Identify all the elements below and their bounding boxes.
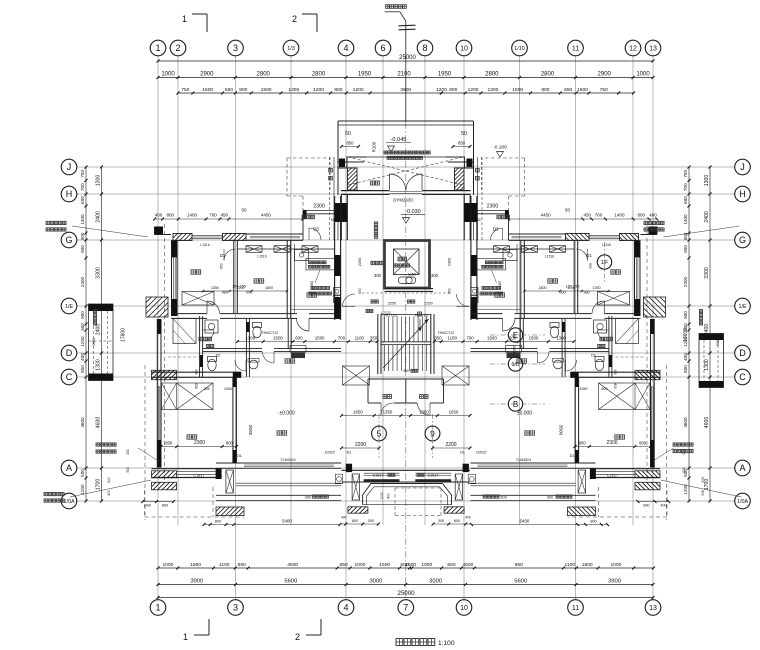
svg-text:850: 850 bbox=[458, 141, 466, 146]
svg-text:D1: D1 bbox=[347, 451, 352, 455]
svg-text:2200: 2200 bbox=[445, 442, 456, 448]
svg-text:400: 400 bbox=[195, 369, 199, 375]
svg-text:2200: 2200 bbox=[355, 442, 366, 448]
svg-text:1400: 1400 bbox=[614, 213, 625, 218]
svg-text:E: E bbox=[513, 331, 518, 340]
svg-text:1350: 1350 bbox=[419, 409, 429, 414]
svg-text:50: 50 bbox=[461, 131, 467, 137]
svg-text:1950: 1950 bbox=[358, 71, 372, 77]
svg-text:1200: 1200 bbox=[468, 87, 479, 93]
svg-text:3900: 3900 bbox=[190, 578, 203, 584]
svg-text:4600: 4600 bbox=[704, 417, 710, 429]
svg-text:350: 350 bbox=[434, 335, 442, 340]
svg-text:2400: 2400 bbox=[683, 276, 688, 287]
svg-text:4450: 4450 bbox=[261, 213, 272, 218]
svg-text:400: 400 bbox=[387, 493, 391, 499]
svg-text:3: 3 bbox=[233, 603, 238, 613]
svg-text:7: 7 bbox=[403, 603, 408, 613]
section mark 1 (bottom) bbox=[183, 619, 209, 642]
svg-text:D1: D1 bbox=[220, 253, 226, 258]
svg-text:650: 650 bbox=[340, 562, 348, 568]
top dimension row: bay widths bbox=[157, 71, 655, 79]
svg-text:600: 600 bbox=[683, 196, 688, 204]
svg-text:J: J bbox=[740, 162, 745, 172]
svg-text:D1: D1 bbox=[460, 451, 465, 455]
svg-text:TLM4524: TLM4524 bbox=[280, 458, 295, 462]
svg-text:700: 700 bbox=[595, 213, 603, 218]
svg-text:1400: 1400 bbox=[80, 214, 85, 225]
svg-text:1300: 1300 bbox=[96, 175, 102, 187]
svg-text:11: 11 bbox=[572, 605, 579, 612]
svg-text:700: 700 bbox=[209, 213, 217, 218]
svg-text:D3: D3 bbox=[313, 227, 319, 232]
core 2200 dim ticks bbox=[340, 447, 472, 450]
svg-text:800: 800 bbox=[226, 440, 234, 445]
svg-text:1150: 1150 bbox=[408, 273, 416, 277]
svg-text:2900: 2900 bbox=[200, 71, 214, 77]
svg-text:2300: 2300 bbox=[448, 258, 452, 266]
svg-text:1300: 1300 bbox=[96, 359, 102, 371]
right dimension chain: fine heights bbox=[683, 166, 691, 503]
left unit walls and fixtures bbox=[141, 157, 341, 526]
svg-text:3300: 3300 bbox=[96, 267, 102, 279]
svg-text:1500: 1500 bbox=[512, 87, 523, 93]
svg-text:17600: 17600 bbox=[121, 328, 127, 342]
svg-text:2400: 2400 bbox=[96, 211, 102, 223]
svg-text:400: 400 bbox=[649, 213, 657, 218]
svg-text:560: 560 bbox=[331, 218, 337, 222]
leader lines to notes bbox=[70, 226, 742, 497]
svg-text:1/C: 1/C bbox=[511, 362, 519, 368]
svg-text:200: 200 bbox=[126, 449, 130, 455]
svg-text:D2: D2 bbox=[591, 354, 596, 358]
svg-text:650: 650 bbox=[564, 87, 572, 93]
svg-text:2300: 2300 bbox=[358, 258, 362, 266]
svg-text:4: 4 bbox=[343, 603, 348, 613]
svg-text:J: J bbox=[67, 162, 72, 172]
section mark 2 (bottom) bbox=[295, 619, 321, 642]
top axis bubbles row bbox=[150, 40, 661, 56]
svg-text:5: 5 bbox=[377, 428, 382, 438]
svg-text:4600: 4600 bbox=[96, 417, 102, 429]
right dimension chain: segment heights bbox=[704, 166, 712, 503]
svg-text:2: 2 bbox=[292, 14, 297, 24]
svg-text:1500: 1500 bbox=[315, 335, 325, 340]
svg-text:1050: 1050 bbox=[224, 387, 232, 391]
svg-text:D2D2′: D2D2′ bbox=[325, 451, 336, 455]
svg-text:500: 500 bbox=[682, 467, 686, 473]
svg-text:450: 450 bbox=[221, 213, 229, 218]
svg-text:9: 9 bbox=[430, 428, 435, 438]
svg-text:800: 800 bbox=[541, 87, 549, 93]
svg-text:2300: 2300 bbox=[313, 204, 325, 210]
svg-text:G: G bbox=[65, 235, 72, 245]
svg-text:750: 750 bbox=[181, 87, 189, 93]
left axis bubbles column bbox=[61, 159, 77, 509]
svg-text:1800: 1800 bbox=[190, 562, 201, 568]
svg-text:400: 400 bbox=[613, 369, 617, 375]
svg-text:4500: 4500 bbox=[462, 562, 473, 568]
svg-text:4600: 4600 bbox=[80, 417, 85, 428]
svg-text:1500: 1500 bbox=[261, 87, 272, 93]
svg-text:25000: 25000 bbox=[399, 55, 416, 61]
svg-text:700: 700 bbox=[466, 335, 474, 340]
svg-text:300: 300 bbox=[438, 519, 444, 523]
svg-text:1800: 1800 bbox=[582, 562, 593, 568]
entrance canopy, doors, elevator core and stairs bbox=[330, 121, 482, 458]
svg-text:600: 600 bbox=[107, 477, 111, 483]
svg-text:±0.000: ±0.000 bbox=[517, 411, 532, 417]
svg-text:-0.030: -0.030 bbox=[405, 209, 420, 215]
svg-text:1300: 1300 bbox=[245, 335, 255, 340]
bottom axis bubbles row bbox=[150, 600, 661, 616]
svg-text:1/E: 1/E bbox=[65, 304, 73, 310]
svg-text:1/0A: 1/0A bbox=[737, 499, 748, 505]
svg-text:D2: D2 bbox=[216, 354, 221, 358]
svg-text:850: 850 bbox=[347, 141, 355, 146]
svg-text:2300: 2300 bbox=[487, 204, 499, 210]
svg-text:C1817: C1817 bbox=[193, 473, 204, 477]
svg-text:1100: 1100 bbox=[447, 335, 457, 340]
svg-text:800: 800 bbox=[579, 440, 587, 445]
svg-text:1300: 1300 bbox=[288, 87, 299, 93]
section mark 1 (top) bbox=[182, 14, 207, 32]
svg-text:800: 800 bbox=[204, 387, 210, 391]
svg-text:800: 800 bbox=[683, 365, 688, 373]
svg-text:1500: 1500 bbox=[273, 335, 283, 340]
svg-text:400: 400 bbox=[683, 353, 688, 361]
svg-text:800: 800 bbox=[454, 519, 460, 523]
svg-text:800: 800 bbox=[215, 519, 221, 523]
svg-text:1/E: 1/E bbox=[738, 304, 746, 310]
svg-text:300: 300 bbox=[368, 519, 374, 523]
svg-text:C1517: C1517 bbox=[373, 474, 384, 478]
svg-text:1100: 1100 bbox=[565, 562, 576, 568]
svg-text:400: 400 bbox=[80, 353, 85, 361]
svg-text:800: 800 bbox=[162, 504, 168, 508]
svg-text:1/3: 1/3 bbox=[287, 46, 295, 52]
top dimension row: fine subdivisions bbox=[177, 87, 636, 95]
svg-text:1000: 1000 bbox=[161, 71, 175, 77]
svg-text:1: 1 bbox=[155, 43, 160, 53]
svg-text:800: 800 bbox=[165, 440, 173, 445]
svg-text:700: 700 bbox=[338, 335, 346, 340]
left dimension chain: segment heights bbox=[96, 166, 104, 503]
svg-text:D3: D3 bbox=[493, 227, 499, 232]
bottom dimension row: fine bbox=[157, 562, 656, 570]
svg-text:C: C bbox=[739, 372, 746, 382]
svg-text:1200: 1200 bbox=[436, 87, 447, 93]
svg-text:4450: 4450 bbox=[541, 213, 552, 218]
svg-text:700: 700 bbox=[80, 170, 85, 178]
svg-text:650: 650 bbox=[448, 288, 452, 294]
svg-text:800: 800 bbox=[637, 213, 645, 218]
svg-text:700: 700 bbox=[683, 170, 688, 178]
svg-text:4500: 4500 bbox=[287, 562, 298, 568]
svg-text:1300: 1300 bbox=[704, 175, 710, 187]
svg-text:2300: 2300 bbox=[606, 440, 617, 446]
svg-text:300: 300 bbox=[547, 494, 554, 499]
svg-text:800: 800 bbox=[602, 387, 608, 391]
svg-text:C: C bbox=[66, 372, 73, 382]
svg-text:1000: 1000 bbox=[610, 562, 621, 568]
svg-text:800: 800 bbox=[195, 383, 199, 389]
svg-text:TLM4524: TLM4524 bbox=[516, 458, 531, 462]
svg-text:1800: 1800 bbox=[265, 286, 273, 290]
svg-text:5400: 5400 bbox=[520, 518, 530, 523]
svg-text:2900: 2900 bbox=[598, 71, 612, 77]
svg-text:900: 900 bbox=[80, 245, 85, 253]
svg-text:500: 500 bbox=[80, 469, 85, 477]
svg-text:1050: 1050 bbox=[580, 387, 588, 391]
svg-text:300: 300 bbox=[374, 273, 382, 278]
svg-text:B: B bbox=[513, 400, 518, 409]
svg-text:G: G bbox=[739, 235, 746, 245]
svg-text:800: 800 bbox=[449, 87, 457, 93]
svg-text:3: 3 bbox=[233, 43, 238, 53]
svg-text:800: 800 bbox=[639, 440, 647, 445]
svg-text:300: 300 bbox=[683, 323, 688, 331]
svg-text:400: 400 bbox=[107, 490, 111, 496]
svg-text:650: 650 bbox=[220, 263, 224, 269]
svg-text:L1516: L1516 bbox=[545, 255, 554, 259]
svg-text:900: 900 bbox=[683, 245, 688, 253]
svg-text:800: 800 bbox=[80, 365, 85, 373]
svg-text:300: 300 bbox=[431, 273, 439, 278]
top cut line to schedule label bbox=[399, 12, 416, 122]
svg-text:900: 900 bbox=[683, 311, 688, 319]
svg-text:1000: 1000 bbox=[162, 562, 173, 568]
svg-text:50: 50 bbox=[565, 208, 571, 213]
svg-text:D1: D1 bbox=[586, 253, 592, 258]
svg-text:FHMC7122: FHMC7122 bbox=[438, 331, 455, 335]
svg-text:H: H bbox=[739, 189, 746, 199]
svg-text:-0.100: -0.100 bbox=[493, 145, 507, 151]
svg-text:D1: D1 bbox=[570, 454, 575, 458]
svg-text:D: D bbox=[739, 348, 746, 358]
svg-text:D2D2′: D2D2′ bbox=[476, 451, 487, 455]
svg-text:4: 4 bbox=[343, 43, 348, 53]
svg-text:1500: 1500 bbox=[529, 335, 539, 340]
svg-text:700: 700 bbox=[80, 183, 85, 191]
svg-text:800: 800 bbox=[643, 504, 649, 508]
svg-text:50: 50 bbox=[241, 208, 247, 213]
svg-text:300: 300 bbox=[305, 494, 312, 499]
svg-text:FHMC7122: FHMC7122 bbox=[262, 331, 279, 335]
svg-text:600: 600 bbox=[701, 477, 705, 483]
svg-text:8: 8 bbox=[422, 43, 427, 53]
svg-text:2250: 2250 bbox=[388, 302, 396, 306]
svg-text:3000: 3000 bbox=[429, 578, 442, 584]
core labels and elevation marks bbox=[262, 131, 572, 499]
entry porch, center windows C1517 and steps bbox=[335, 464, 475, 526]
svg-text:1200: 1200 bbox=[80, 336, 85, 347]
svg-text:D1: D1 bbox=[237, 454, 242, 458]
living room dim chain ticks bbox=[236, 340, 576, 343]
svg-text:1200: 1200 bbox=[80, 484, 85, 495]
svg-text:3600: 3600 bbox=[400, 87, 411, 93]
svg-text:1650: 1650 bbox=[353, 409, 363, 414]
svg-text:1/F: 1/F bbox=[601, 260, 609, 266]
svg-text:1200: 1200 bbox=[313, 87, 324, 93]
svg-text:5600: 5600 bbox=[514, 578, 527, 584]
svg-text:1300: 1300 bbox=[556, 335, 566, 340]
svg-text:DYM2630: DYM2630 bbox=[393, 197, 413, 202]
in-plan axis bubbles E, 1/C, B, 1/F bbox=[490, 242, 612, 411]
svg-text:300: 300 bbox=[500, 494, 507, 499]
svg-text:1000: 1000 bbox=[355, 562, 366, 568]
svg-text:800: 800 bbox=[167, 213, 175, 218]
svg-text:12: 12 bbox=[629, 46, 637, 53]
upper small dim row ticks bbox=[202, 290, 610, 292]
svg-text:300: 300 bbox=[80, 232, 85, 240]
svg-text:1050: 1050 bbox=[716, 338, 720, 346]
svg-text:10: 10 bbox=[460, 46, 468, 53]
svg-text:350: 350 bbox=[370, 335, 378, 340]
svg-text:650: 650 bbox=[588, 263, 592, 269]
drawing title: first floor plan 1:100 bbox=[396, 639, 455, 647]
svg-text:A: A bbox=[739, 463, 745, 473]
svg-text:650: 650 bbox=[238, 562, 246, 568]
svg-text:2800: 2800 bbox=[541, 71, 555, 77]
svg-text:C1817: C1817 bbox=[607, 473, 618, 477]
svg-text:FM L7122: FM L7122 bbox=[384, 314, 398, 318]
svg-text:1650: 1650 bbox=[449, 409, 459, 414]
svg-text:1300: 1300 bbox=[704, 359, 710, 371]
svg-text:1000: 1000 bbox=[421, 562, 432, 568]
section mark 2 (top) bbox=[292, 14, 317, 32]
svg-text:1300: 1300 bbox=[487, 87, 498, 93]
svg-text:400: 400 bbox=[155, 213, 163, 218]
svg-text:2400: 2400 bbox=[80, 276, 85, 287]
svg-text:L1516: L1516 bbox=[602, 243, 611, 247]
svg-text:560: 560 bbox=[475, 218, 481, 222]
svg-text:1500: 1500 bbox=[577, 87, 588, 93]
svg-text:13: 13 bbox=[649, 605, 657, 612]
svg-text:3300: 3300 bbox=[704, 267, 710, 279]
svg-text:1: 1 bbox=[183, 632, 188, 642]
svg-text:600: 600 bbox=[80, 196, 85, 204]
svg-text:1100: 1100 bbox=[355, 335, 365, 340]
svg-text:11: 11 bbox=[572, 46, 579, 53]
svg-text:3000: 3000 bbox=[369, 578, 382, 584]
svg-text:650: 650 bbox=[225, 87, 233, 93]
svg-text:3500: 3500 bbox=[248, 424, 253, 435]
grid: horizontal axis lines bbox=[77, 167, 735, 501]
svg-text:1:100: 1:100 bbox=[438, 640, 455, 647]
svg-text:2800: 2800 bbox=[257, 71, 271, 77]
top overall dimension 25000 bbox=[157, 55, 655, 63]
svg-text:2400: 2400 bbox=[704, 211, 710, 223]
svg-text:500: 500 bbox=[126, 467, 130, 473]
svg-text:800: 800 bbox=[590, 519, 596, 523]
right axis bubbles column bbox=[735, 159, 751, 509]
svg-text:10: 10 bbox=[460, 605, 468, 612]
svg-text:800: 800 bbox=[352, 519, 358, 523]
svg-text:650: 650 bbox=[358, 288, 362, 294]
svg-text:2800: 2800 bbox=[312, 71, 326, 77]
svg-text:2800: 2800 bbox=[485, 71, 499, 77]
svg-text:5600: 5600 bbox=[284, 578, 297, 584]
svg-text:13: 13 bbox=[649, 46, 657, 53]
svg-text:1200: 1200 bbox=[353, 87, 364, 93]
svg-text:1030: 1030 bbox=[380, 492, 384, 500]
svg-text:1100: 1100 bbox=[219, 562, 230, 568]
svg-text:4600: 4600 bbox=[683, 417, 688, 428]
svg-text:300: 300 bbox=[80, 323, 85, 331]
svg-text:1200: 1200 bbox=[683, 336, 688, 347]
svg-text:2: 2 bbox=[175, 43, 180, 53]
label: unit schedule (hu xing dui zhao biao) bbox=[385, 5, 407, 12]
grid: vertical axis lines bbox=[158, 55, 653, 600]
svg-text:450: 450 bbox=[403, 369, 409, 373]
svg-text:1000: 1000 bbox=[636, 71, 650, 77]
svg-text:L1516: L1516 bbox=[200, 243, 209, 247]
svg-text:800: 800 bbox=[613, 383, 617, 389]
svg-text:R100: R100 bbox=[372, 141, 377, 152]
svg-text:400: 400 bbox=[465, 515, 471, 519]
svg-text:L1516: L1516 bbox=[257, 255, 266, 259]
svg-text:3500: 3500 bbox=[559, 425, 564, 436]
svg-text:1100: 1100 bbox=[567, 286, 575, 290]
svg-text:900: 900 bbox=[80, 311, 85, 319]
svg-text:1500: 1500 bbox=[405, 562, 416, 568]
svg-text:1950: 1950 bbox=[513, 345, 517, 353]
svg-text:1500: 1500 bbox=[202, 87, 213, 93]
svg-text:650: 650 bbox=[515, 562, 523, 568]
bedroom 2300 dim ticks bbox=[159, 445, 652, 448]
left dimension chain: fine heights bbox=[80, 166, 88, 503]
equipment platform bays (left and right) bbox=[89, 304, 724, 388]
svg-text:1100: 1100 bbox=[237, 286, 245, 290]
svg-text:450: 450 bbox=[583, 213, 591, 218]
svg-text:5400: 5400 bbox=[282, 518, 292, 523]
svg-text:1/10: 1/10 bbox=[514, 46, 525, 52]
svg-text:1800: 1800 bbox=[539, 286, 547, 290]
svg-text:1350: 1350 bbox=[383, 409, 393, 414]
svg-text:1: 1 bbox=[182, 14, 187, 24]
overall height dims 17600 bbox=[121, 328, 690, 342]
svg-text:2300: 2300 bbox=[194, 440, 205, 446]
right unit walls and fixtures (mirrored) bbox=[470, 157, 670, 526]
unit room labels and dimension texts bbox=[44, 168, 720, 523]
svg-text:1950: 1950 bbox=[438, 71, 452, 77]
svg-text:1400: 1400 bbox=[187, 213, 198, 218]
svg-text:1/0A: 1/0A bbox=[63, 499, 74, 505]
svg-text:-0.045: -0.045 bbox=[391, 137, 407, 143]
svg-text:650: 650 bbox=[447, 562, 455, 568]
svg-text:1050: 1050 bbox=[92, 338, 96, 346]
svg-text:400: 400 bbox=[341, 515, 347, 519]
svg-text:6: 6 bbox=[380, 43, 385, 53]
svg-text:1350: 1350 bbox=[593, 286, 601, 290]
svg-text:2250: 2250 bbox=[424, 302, 432, 306]
svg-text:50: 50 bbox=[345, 131, 351, 137]
svg-text:1350: 1350 bbox=[211, 286, 219, 290]
svg-text:700: 700 bbox=[683, 183, 688, 191]
svg-text:25000: 25000 bbox=[397, 590, 415, 597]
svg-text:A: A bbox=[66, 463, 72, 473]
svg-text:1500: 1500 bbox=[379, 562, 390, 568]
svg-text:2100: 2100 bbox=[397, 71, 411, 77]
svg-text:400: 400 bbox=[145, 504, 151, 508]
svg-text:2: 2 bbox=[295, 632, 300, 642]
svg-text:1400: 1400 bbox=[683, 214, 688, 225]
bottom dimension row: bays bbox=[157, 578, 655, 586]
svg-text:750: 750 bbox=[600, 87, 608, 93]
svg-text:±0.000: ±0.000 bbox=[279, 411, 294, 417]
bottom overall dimension 25000 bbox=[157, 590, 655, 599]
